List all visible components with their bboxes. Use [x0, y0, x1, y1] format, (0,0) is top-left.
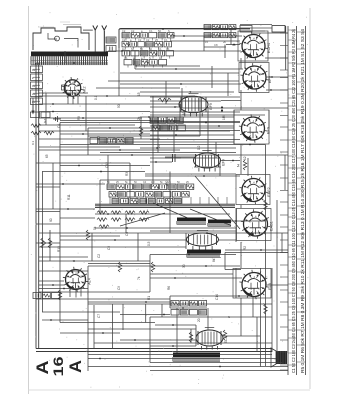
svg-text:C2: C2 [138, 38, 142, 42]
junction at (132,155) [131, 154, 133, 156]
wire (horizontal run y=312) [42, 311, 120, 313]
wire (vertical run x=200) [199, 96, 201, 136]
wire (vertical run x=104.5) [104, 31, 106, 52]
resistor R40 [264, 304, 267, 314]
wire (horizontal run y=271) [39, 270, 88, 272]
wire (horizontal run y=263.5) [88, 263, 150, 265]
tube T3 [239, 114, 271, 142]
wire (horizontal run y=100.5) [221, 100, 241, 102]
svg-text:5k: 5k [93, 226, 97, 230]
wire (vertical run x=86) [85, 96, 87, 131]
wire (horizontal run y=44.5) [226, 44, 240, 46]
wire (vertical run x=245) [244, 51, 246, 69]
wire (horizontal run y=90) [266, 89, 288, 91]
wire (horizontal run y=167) [194, 166, 221, 168]
wire (vertical run x=186) [185, 233, 187, 249]
left boxes beside oscillator cluster [106, 37, 116, 52]
svg-text:100: 100 [182, 109, 186, 115]
wire (vertical run x=60) [59, 123, 61, 323]
stubs from band-switch rows to bus [110, 197, 227, 204]
wire (horizontal run y=122.5) [60, 122, 240, 124]
tube O4 (side view) [196, 328, 228, 350]
svg-text:AK2: AK2 [83, 86, 87, 93]
wire (horizontal run y=163) [36, 162, 130, 164]
parts list strip borders [287, 26, 289, 375]
wire (horizontal run y=66) [135, 65, 200, 67]
svg-text:30: 30 [182, 264, 186, 268]
wire (horizontal run y=125) [39, 124, 135, 126]
resistor row below bus [97, 211, 149, 228]
wire (vertical run x=191) [190, 329, 192, 343]
terminal wires into parts list [280, 33, 288, 370]
junction at (206,122.5) [205, 122, 207, 124]
junction at (149,117) [148, 116, 150, 118]
wire (vertical run x=225) [224, 45, 226, 59]
tube O3 (side view) [187, 231, 219, 250]
wire (horizontal run y=317) [150, 316, 272, 318]
junction at (239,296) [238, 295, 240, 297]
enclosure box around T2 [239, 63, 269, 93]
svg-text:C1 50 C2 100 C3 2x450 C4 65 C5: C1 50 C2 100 C3 2x450 C4 65 C5 25 C6 100… [291, 28, 296, 373]
wire (horizontal run y=257) [39, 256, 88, 258]
wire (horizontal run y=252.5) [225, 252, 288, 254]
wire (vertical run x=241) [240, 90, 242, 110]
wire (horizontal run y=354.5) [88, 354, 272, 356]
tube T7 [63, 267, 92, 292]
wire (horizontal run y=41) [170, 40, 240, 42]
wire (vertical run x=208) [207, 107, 209, 153]
junction at (103,333) [102, 332, 104, 334]
wire (horizontal run y=231) [150, 230, 236, 232]
wire (vertical run x=277) [276, 200, 278, 352]
svg-text:0.1: 0.1 [94, 95, 98, 100]
svg-text:R6: R6 [167, 286, 171, 290]
enclosure box around T1 [238, 31, 268, 61]
svg-text:EL3: EL3 [268, 283, 272, 290]
wire (vertical run x=123) [122, 304, 124, 330]
tube T2 [240, 63, 272, 91]
wire (horizontal run y=115) [150, 114, 265, 116]
wire (horizontal run y=343) [94, 342, 272, 344]
svg-text:65: 65 [45, 154, 49, 158]
wire (vertical run x=119) [118, 29, 120, 96]
svg-text:R3: R3 [125, 172, 129, 176]
svg-text:C2: C2 [97, 254, 101, 258]
junction at (250,144.5) [249, 144, 251, 146]
tube T1 [239, 32, 271, 60]
IF comb small [177, 218, 206, 225]
wire (horizontal run y=63) [36, 62, 108, 64]
wire (vertical run x=225) [224, 253, 226, 270]
tube O2 (side view) [194, 151, 226, 172]
svg-text:S: S [168, 29, 170, 33]
svg-text:C12: C12 [105, 162, 109, 168]
junction at (175,107) [174, 106, 176, 108]
wire (vertical run x=100) [99, 180, 101, 214]
wire (horizontal run y=358.5) [88, 358, 276, 360]
wire (vertical run x=88) [87, 266, 89, 371]
svg-text:C9: C9 [117, 286, 121, 290]
svg-text:0.1: 0.1 [124, 56, 128, 60]
wire (horizontal run y=322.5) [60, 322, 155, 324]
junction at (236,221) [235, 220, 237, 222]
RF coupling component rows left of O1 [149, 90, 240, 168]
wire (horizontal run y=269.5) [225, 269, 241, 271]
junction at (79,165.5) [78, 165, 80, 167]
wire (vertical run x=33) [32, 98, 34, 112]
wire (vertical run x=241) [240, 242, 242, 268]
junction at (83,118) [82, 117, 84, 119]
wire (vertical run x=126) [125, 214, 127, 233]
wire (horizontal run y=33) [252, 32, 288, 34]
wire (vertical run x=196) [195, 325, 197, 346]
junction at (206,266) [205, 265, 207, 267]
wire (horizontal run y=240) [219, 239, 236, 241]
junction at (63,184) [62, 183, 64, 185]
wire (horizontal run y=96) [39, 95, 195, 97]
wire (horizontal run y=218) [60, 217, 95, 219]
wire (horizontal run y=84) [120, 83, 241, 85]
svg-text:16: 16 [50, 356, 66, 376]
resistor R35 [223, 330, 226, 340]
top-right junction block [240, 25, 286, 71]
resistor R38 [86, 230, 89, 240]
junction at (120,150) [119, 149, 121, 151]
wire (horizontal run y=304) [88, 303, 272, 305]
IF transformer winding [187, 250, 221, 258]
wire (horizontal run y=171.5) [42, 171, 145, 173]
wire (vertical run x=170) [169, 172, 171, 234]
wire (horizontal run y=281) [39, 280, 64, 282]
wire (horizontal run y=130.5) [150, 130, 240, 132]
svg-text:0.1: 0.1 [149, 29, 153, 33]
wire (vertical run x=212) [211, 66, 213, 88]
wire (vertical run x=285) [284, 155, 286, 190]
wire (vertical run x=150) [149, 255, 151, 293]
junction at (234,44.5) [233, 44, 235, 46]
wire (horizontal run y=214) [95, 213, 230, 215]
wire (horizontal run y=162) [150, 161, 172, 163]
junction at (164,314.5) [163, 314, 165, 316]
wire (horizontal run y=77) [266, 76, 288, 78]
wire (horizontal run y=254.5) [150, 254, 236, 256]
wire (vertical run x=234) [233, 110, 235, 144]
wire (vertical run x=177) [176, 308, 178, 353]
svg-text:R1: R1 [147, 296, 151, 300]
junction at (51,320) [50, 319, 52, 321]
svg-text:C3: C3 [169, 126, 173, 130]
junction at (271,90) [270, 89, 272, 91]
capacitor at O2 input [165, 154, 181, 162]
wire (vertical run x=170) [169, 296, 171, 308]
svg-text:40: 40 [49, 218, 53, 222]
resistor R37 [58, 290, 61, 300]
junction at (64,288.5) [63, 288, 65, 290]
wire (horizontal run y=144.5) [60, 144, 265, 146]
resistor R30 [48, 238, 51, 248]
wire (vertical run x=135) [134, 51, 136, 69]
wire (horizontal run y=292) [39, 291, 150, 293]
oscillator cluster enclosure [119, 29, 250, 49]
svg-text:C8: C8 [125, 232, 129, 236]
wire (vertical run x=42.5) [42, 172, 44, 313]
wire (horizontal run y=135) [150, 134, 234, 136]
wire (horizontal run y=333) [60, 332, 120, 334]
junction at (122,51) [121, 50, 123, 52]
junction at (110,128) [109, 127, 111, 129]
antenna transformer laminations comb [31, 56, 108, 65]
svg-text:12: 12 [243, 156, 247, 160]
resistor R34 [264, 200, 267, 210]
output transformer winding [173, 353, 220, 362]
bottom-left small component row [33, 293, 60, 299]
svg-text:0.1: 0.1 [31, 140, 35, 145]
wire (horizontal run y=320) [42, 319, 88, 321]
wire (vertical run x=112.6) [112, 304, 114, 348]
wire (horizontal run y=104) [39, 103, 180, 105]
enclosure box around T6 [233, 269, 271, 299]
wire (horizontal run y=296) [170, 295, 253, 297]
wire (horizontal run y=147) [39, 146, 120, 148]
wire (horizontal run y=112) [150, 111, 240, 113]
wire (horizontal run y=180) [100, 179, 170, 181]
wire (horizontal run y=139) [39, 138, 160, 140]
wire (vertical run x=241) [240, 145, 242, 175]
junction at (114,139) [113, 138, 115, 140]
svg-text:b2: b2 [32, 84, 36, 88]
wire (vertical run x=282) [281, 233, 283, 253]
wire (horizontal run y=221) [230, 220, 265, 222]
wire (horizontal run y=308) [170, 307, 207, 309]
antenna transformer winding (dark bar) [31, 52, 108, 57]
enclosure box around T5 [237, 209, 272, 241]
junction at (207,233) [206, 232, 208, 234]
junction at (176,69) [175, 68, 177, 70]
wire (horizontal run y=142) [100, 141, 234, 143]
wire (vertical run x=150) [149, 317, 151, 363]
junction at (74,63) [73, 62, 75, 64]
junction at (157,148) [156, 147, 158, 149]
wire (vertical run x=46) [45, 93, 47, 125]
svg-text:C2: C2 [131, 29, 135, 33]
wire (horizontal run y=366.5) [88, 366, 288, 368]
wire (vertical run x=220) [219, 161, 221, 177]
wire (vertical run x=50) [49, 230, 51, 261]
wire (vertical run x=153) [152, 96, 154, 184]
junction at (146,302) [145, 301, 147, 303]
resistor R31 [41, 238, 44, 248]
junction at (53,104) [52, 103, 54, 105]
tube T4 [239, 176, 271, 204]
wire (horizontal run y=121.5) [150, 121, 240, 123]
svg-text:C2: C2 [146, 38, 150, 42]
loudspeaker [271, 348, 287, 367]
wire (horizontal run y=139.5) [150, 139, 240, 141]
wire (vertical run x=208) [207, 308, 209, 330]
wire (horizontal run y=228) [95, 227, 236, 229]
svg-text:a: a [227, 316, 231, 318]
wire (horizontal run y=92) [140, 91, 234, 93]
svg-text:C8: C8 [214, 43, 218, 47]
junction at (220,366.5) [219, 366, 221, 368]
wire (vertical run x=174) [173, 128, 175, 153]
wire (horizontal run y=118) [39, 117, 142, 119]
junction at (183,308) [182, 307, 184, 309]
wire (vertical run x=228) [227, 73, 229, 96]
svg-text:15: 15 [137, 92, 141, 96]
wire (horizontal run y=250) [225, 249, 288, 251]
svg-text:R11: R11 [67, 194, 71, 200]
svg-text:C7: C7 [97, 314, 101, 318]
tube T6 [239, 270, 272, 299]
wire (horizontal run y=370.5) [150, 370, 288, 372]
wire (horizontal run y=47) [204, 46, 226, 48]
svg-text:2k: 2k [137, 116, 141, 120]
junction at (156,162) [155, 161, 157, 163]
wire (horizontal run y=266) [88, 265, 240, 267]
svg-text:25: 25 [157, 144, 161, 148]
svg-text:EF9: EF9 [267, 127, 271, 134]
svg-text:0.1: 0.1 [164, 38, 168, 42]
svg-text:b2: b2 [32, 68, 36, 72]
wire (horizontal run y=247) [39, 246, 186, 248]
junction at (53,285) [52, 284, 54, 286]
switch diagonal wires [120, 176, 240, 229]
wire (vertical run x=236) [235, 208, 237, 242]
svg-text:0.2: 0.2 [197, 145, 201, 150]
tube T0 [62, 77, 87, 99]
wire (vertical run x=162) [161, 304, 163, 317]
junction at (187,97) [186, 96, 188, 98]
wire (horizontal run y=150) [39, 149, 180, 151]
wire (horizontal run y=165.5) [60, 165, 150, 167]
wire (vertical run x=241) [240, 298, 242, 336]
junction at (272,77) [271, 76, 273, 78]
wire (horizontal run y=236) [60, 235, 120, 237]
wire (horizontal run y=134) [60, 133, 150, 135]
svg-text:4-7: 4-7 [43, 118, 47, 123]
junction at (176,135) [175, 134, 177, 136]
T7 pin leads [70, 289, 81, 298]
svg-text:0.1: 0.1 [166, 47, 170, 51]
wire (horizontal run y=117) [140, 116, 234, 118]
wire (horizontal run y=362.5) [150, 362, 282, 364]
wire (vertical run x=92) [91, 233, 93, 261]
wire (horizontal run y=152.5) [100, 152, 236, 154]
wire (horizontal run y=111.5) [39, 111, 150, 113]
band switch cluster rows [107, 181, 194, 204]
svg-text:EF9: EF9 [209, 103, 213, 110]
wire (horizontal run y=288.5) [39, 288, 88, 290]
wire (horizontal run y=240) [60, 239, 186, 241]
wire (horizontal run y=108) [180, 107, 288, 109]
wire (horizontal run y=81) [108, 80, 239, 82]
junction at (115,240) [114, 239, 116, 241]
wire (vertical run x=260.5) [260, 268, 262, 367]
svg-text:b2: b2 [32, 100, 36, 104]
wire (vertical run x=53) [52, 163, 54, 209]
wire (vertical run x=182) [181, 88, 183, 108]
wire (horizontal run y=158) [150, 157, 220, 159]
svg-text:A: A [66, 360, 85, 373]
wire (horizontal run y=93) [39, 92, 88, 94]
wire (vertical run x=253) [252, 296, 254, 317]
wire (horizontal run y=285) [267, 284, 288, 286]
junction at (261,250) [260, 249, 262, 251]
wire (horizontal run y=233) [39, 232, 288, 234]
svg-text:C5: C5 [107, 246, 111, 250]
wire (horizontal run y=58) [265, 57, 288, 59]
wire (horizontal run y=278) [150, 277, 242, 279]
wire (vertical run x=94) [93, 305, 95, 348]
svg-text:S: S [131, 47, 133, 51]
svg-text:C2: C2 [122, 29, 126, 33]
wire (vertical run x=241) [240, 58, 242, 69]
wire (vertical run x=141) [140, 118, 142, 139]
wire (vertical run x=216) [215, 142, 217, 158]
wire (horizontal run y=157) [165, 156, 195, 158]
svg-text:450: 450 [165, 180, 169, 186]
junction at (53,111.5) [52, 111, 54, 113]
tube T5 [241, 209, 274, 238]
junction at (219,126) [218, 125, 220, 127]
junction at (189,254.5) [188, 254, 190, 256]
svg-text:R5 0.1M R6 50k R7 1M R8 0.3M R: R5 0.1M R6 50k R7 1M R8 0.3M R9 25k R10 … [300, 28, 305, 373]
wire (vertical run x=145.7) [145, 304, 147, 323]
wire (vertical run x=248) [247, 158, 249, 176]
wire (horizontal run y=174) [145, 173, 236, 175]
oscillator cluster components [122, 29, 175, 68]
junction at (127,228) [126, 227, 128, 229]
junction at (107,96) [106, 95, 108, 97]
resistor R33 [151, 262, 154, 272]
wire (horizontal run y=160.5) [220, 160, 240, 162]
wire (vertical run x=204) [203, 36, 205, 51]
wire (horizontal run y=285) [39, 284, 64, 286]
antenna coil shield box [33, 22, 93, 50]
wire (horizontal run y=88) [96, 87, 180, 89]
small box row mid-left [90, 138, 133, 144]
wire (horizontal run y=329) [88, 328, 196, 330]
wire (horizontal run y=101) [150, 100, 221, 102]
wire (horizontal run y=120.5) [60, 120, 180, 122]
antenna input arrows V V [93, 26, 107, 52]
junction at (175,278) [174, 277, 176, 279]
svg-text:C14: C14 [215, 294, 219, 300]
wire (horizontal run y=136) [88, 135, 200, 137]
junction at (71,271) [70, 270, 72, 272]
T0 pin leads [62, 85, 79, 104]
wire (vertical run x=130) [129, 163, 131, 204]
svg-text:R9: R9 [77, 116, 81, 120]
wire (horizontal run y=184) [36, 183, 105, 185]
wire (vertical run x=236) [235, 268, 237, 298]
IF comb small 2 [208, 220, 231, 227]
wire (vertical run x=65) [64, 51, 66, 63]
wave-band switch contact column [31, 66, 43, 115]
junction at (135,340) [134, 339, 136, 341]
wire (horizontal run y=128) [88, 127, 234, 129]
enclosure box around T3 [234, 110, 269, 144]
wire (horizontal run y=69) [135, 68, 243, 70]
wire (horizontal run y=299) [36, 298, 170, 300]
svg-text:EAB1: EAB1 [270, 221, 274, 231]
wire (horizontal run y=155) [60, 154, 288, 156]
junction at (101,171.5) [100, 171, 102, 173]
junction at (173,325) [172, 324, 174, 326]
svg-text:8k: 8k [212, 258, 216, 262]
svg-text:1M: 1M [222, 115, 226, 120]
